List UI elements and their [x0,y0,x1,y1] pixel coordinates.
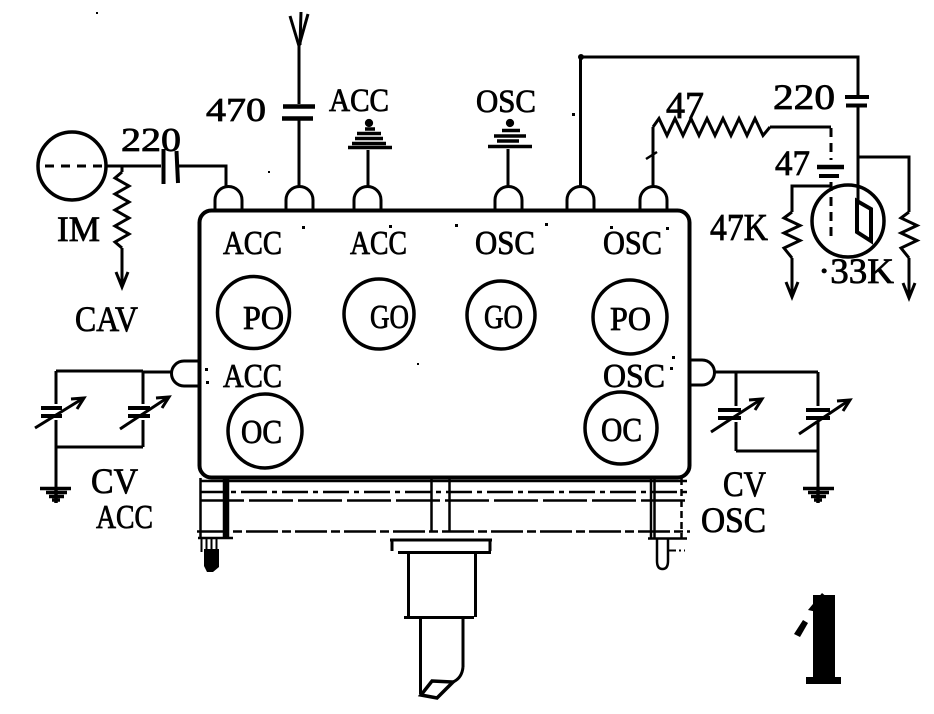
coil circle OC (acc) [228,394,302,468]
svg-text:CV: CV [723,464,766,504]
svg-text:PO: PO [243,300,284,337]
coil circle GO (osc) [467,281,535,349]
resistor .33K (vertical with arrow) [901,212,917,258]
ground (CV ACC) [40,487,71,503]
shaft upper [404,554,476,618]
mounting flange [390,540,492,553]
svg-text:CV: CV [91,461,138,501]
wire terminal 5 up and across to 220pf [581,57,859,187]
wire branch to resistor .33K [858,157,909,212]
wire tube V1 to capacitor 220 [106,165,161,168]
terminal bump left side [171,361,200,386]
tube V2 (oscillator) envelope [812,185,884,257]
svg-text:OSC: OSC [476,84,536,120]
svg-text:OSC: OSC [701,500,766,540]
svg-text:47K: 47K [710,207,768,249]
capacitor 47 (grid) [817,167,844,176]
svg-text:ACC: ACC [329,83,389,119]
variable capacitor CV ACC a [35,398,84,428]
figure number 1 [794,593,841,684]
svg-text:CAV: CAV [75,299,138,339]
svg-text:470: 470 [206,92,266,129]
dashed stub down to capacitor 47 [830,128,833,160]
terminal bump 1 [215,187,242,212]
variable capacitor CV OSC b [799,400,850,434]
wire terminal 6 up to resistor 47 [652,127,655,187]
svg-text:47: 47 [775,143,810,183]
wire left bump to CV ACC loop [143,371,172,374]
terminal bump 5 [567,187,594,212]
resistor 47K wire to grid [792,186,831,212]
svg-text:GO: GO [484,299,523,336]
wire capacitor to plate of V2 [857,107,860,201]
capacitor 220 (right) [845,97,869,106]
wire right bump to CV OSC loop [715,371,736,374]
tick mark on wire [646,152,657,159]
junction dot [578,54,584,60]
tube V2 plate [857,201,871,241]
svg-text:OC: OC [241,414,282,451]
tube V1 dashed cathode line [45,165,107,168]
coil circle PO (osc) [593,280,667,354]
svg-text:PO: PO [610,301,651,338]
chassis base lines [197,481,690,539]
trimmer capacitor OSC [488,121,532,147]
coil circle OC (osc) [585,392,657,464]
svg-text:ACC: ACC [223,225,282,262]
resistor CAV (vertical, with arrow) [115,172,129,248]
tube V1 (IM mixer) envelope [38,132,106,200]
svg-text:220: 220 [773,77,835,117]
resistor 47 (horizontal) [653,119,770,136]
chassis verticals [201,478,682,538]
antenna [290,12,308,104]
wire trimmer OSC to terminal 4 [507,149,510,187]
variable capacitor CV ACC b [120,397,169,429]
svg-text:OSC: OSC [603,225,662,262]
coil circle GO (acc) [344,279,414,349]
coil circle PO (acc) [218,277,290,349]
wire trimmer ACC to terminal 3 [367,150,370,187]
svg-text:OSC: OSC [603,358,665,395]
svg-text:OSC: OSC [475,225,535,262]
terminal bump 2 [286,187,313,212]
terminal bump 4 [495,187,522,212]
svg-text:ACC: ACC [350,225,407,262]
connector pins left [202,538,217,557]
terminal bump 6 [640,187,667,212]
trimmer capacitor ACC [348,121,392,148]
CV ACC loop wiring [56,371,143,487]
main tuner box [200,211,690,478]
variable capacitor CV OSC a [711,399,762,432]
capacitor 220 (input coupling) [164,149,179,184]
dashed grid line into tube V2 [830,182,833,240]
terminal bump right side [689,360,715,385]
connector pin right [657,539,668,569]
ground (CV OSC) [803,487,834,503]
svg-text:220: 220 [121,122,181,159]
svg-text:47: 47 [666,85,704,127]
terminal bump 3 [354,187,381,212]
capacitor 470 (antenna series) [282,107,315,119]
svg-text:ACC: ACC [223,358,282,395]
svg-text:IM: IM [57,209,100,249]
svg-text:ACC: ACC [96,499,153,536]
wire resistor 47 to grid network [770,126,831,129]
svg-text:OC: OC [601,412,642,449]
CV OSC loop wiring [736,372,818,487]
wire capacitor 470 to terminal 2 [298,120,301,187]
shaft lower (cable with lug) [421,619,464,698]
svg-text:GO: GO [370,299,409,336]
scan specks [96,12,675,384]
wire capacitor 220 to terminal 1 [178,166,226,187]
resistor 47K (vertical with arrow) [784,212,800,258]
